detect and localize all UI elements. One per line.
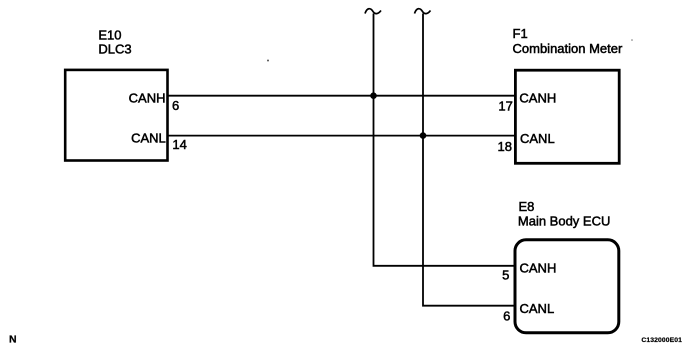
wire CANH horizontal (E10 pin6 to F1 pin17) [167, 95, 517, 97]
svg-text:CANL: CANL [520, 131, 555, 146]
svg-text:CANL: CANL [131, 131, 166, 146]
svg-text:CANL: CANL [520, 301, 555, 316]
svg-text:6: 6 [503, 308, 510, 323]
wire vertical branch CANH to E8 pin5 [374, 14, 517, 266]
svg-text:DLC3: DLC3 [98, 41, 131, 56]
break symbol (squiggle) on CANL branch [415, 9, 431, 14]
wire vertical branch CANL to E8 pin6 [423, 14, 517, 306]
connector F1 box [515, 70, 619, 163]
svg-text:Combination Meter: Combination Meter [513, 41, 623, 56]
svg-text:17: 17 [498, 98, 512, 113]
scan speck 2 [631, 39, 633, 41]
junction dot CANH x branch [370, 92, 377, 99]
connector E10 box [65, 70, 167, 161]
svg-text:6: 6 [172, 98, 179, 113]
svg-text:E8: E8 [519, 199, 535, 214]
svg-text:5: 5 [502, 268, 509, 283]
junction dot CANL x branch [420, 132, 427, 139]
scan speck 1 [267, 60, 269, 62]
svg-text:CANH: CANH [129, 91, 166, 106]
svg-text:N: N [9, 334, 17, 346]
svg-text:Main Body ECU: Main Body ECU [518, 214, 610, 229]
break symbol (squiggle) on CANH branch [365, 9, 381, 14]
svg-text:18: 18 [498, 139, 512, 154]
ECU E8 box [515, 240, 619, 333]
svg-text:F1: F1 [513, 26, 528, 41]
svg-text:E10: E10 [98, 27, 121, 42]
wire CANL horizontal (E10 pin14 to F1 pin18) [167, 135, 517, 137]
svg-text:CANH: CANH [520, 260, 557, 275]
svg-text:CANH: CANH [519, 91, 556, 106]
svg-text:C132000E01: C132000E01 [641, 337, 682, 344]
svg-text:14: 14 [172, 137, 186, 152]
